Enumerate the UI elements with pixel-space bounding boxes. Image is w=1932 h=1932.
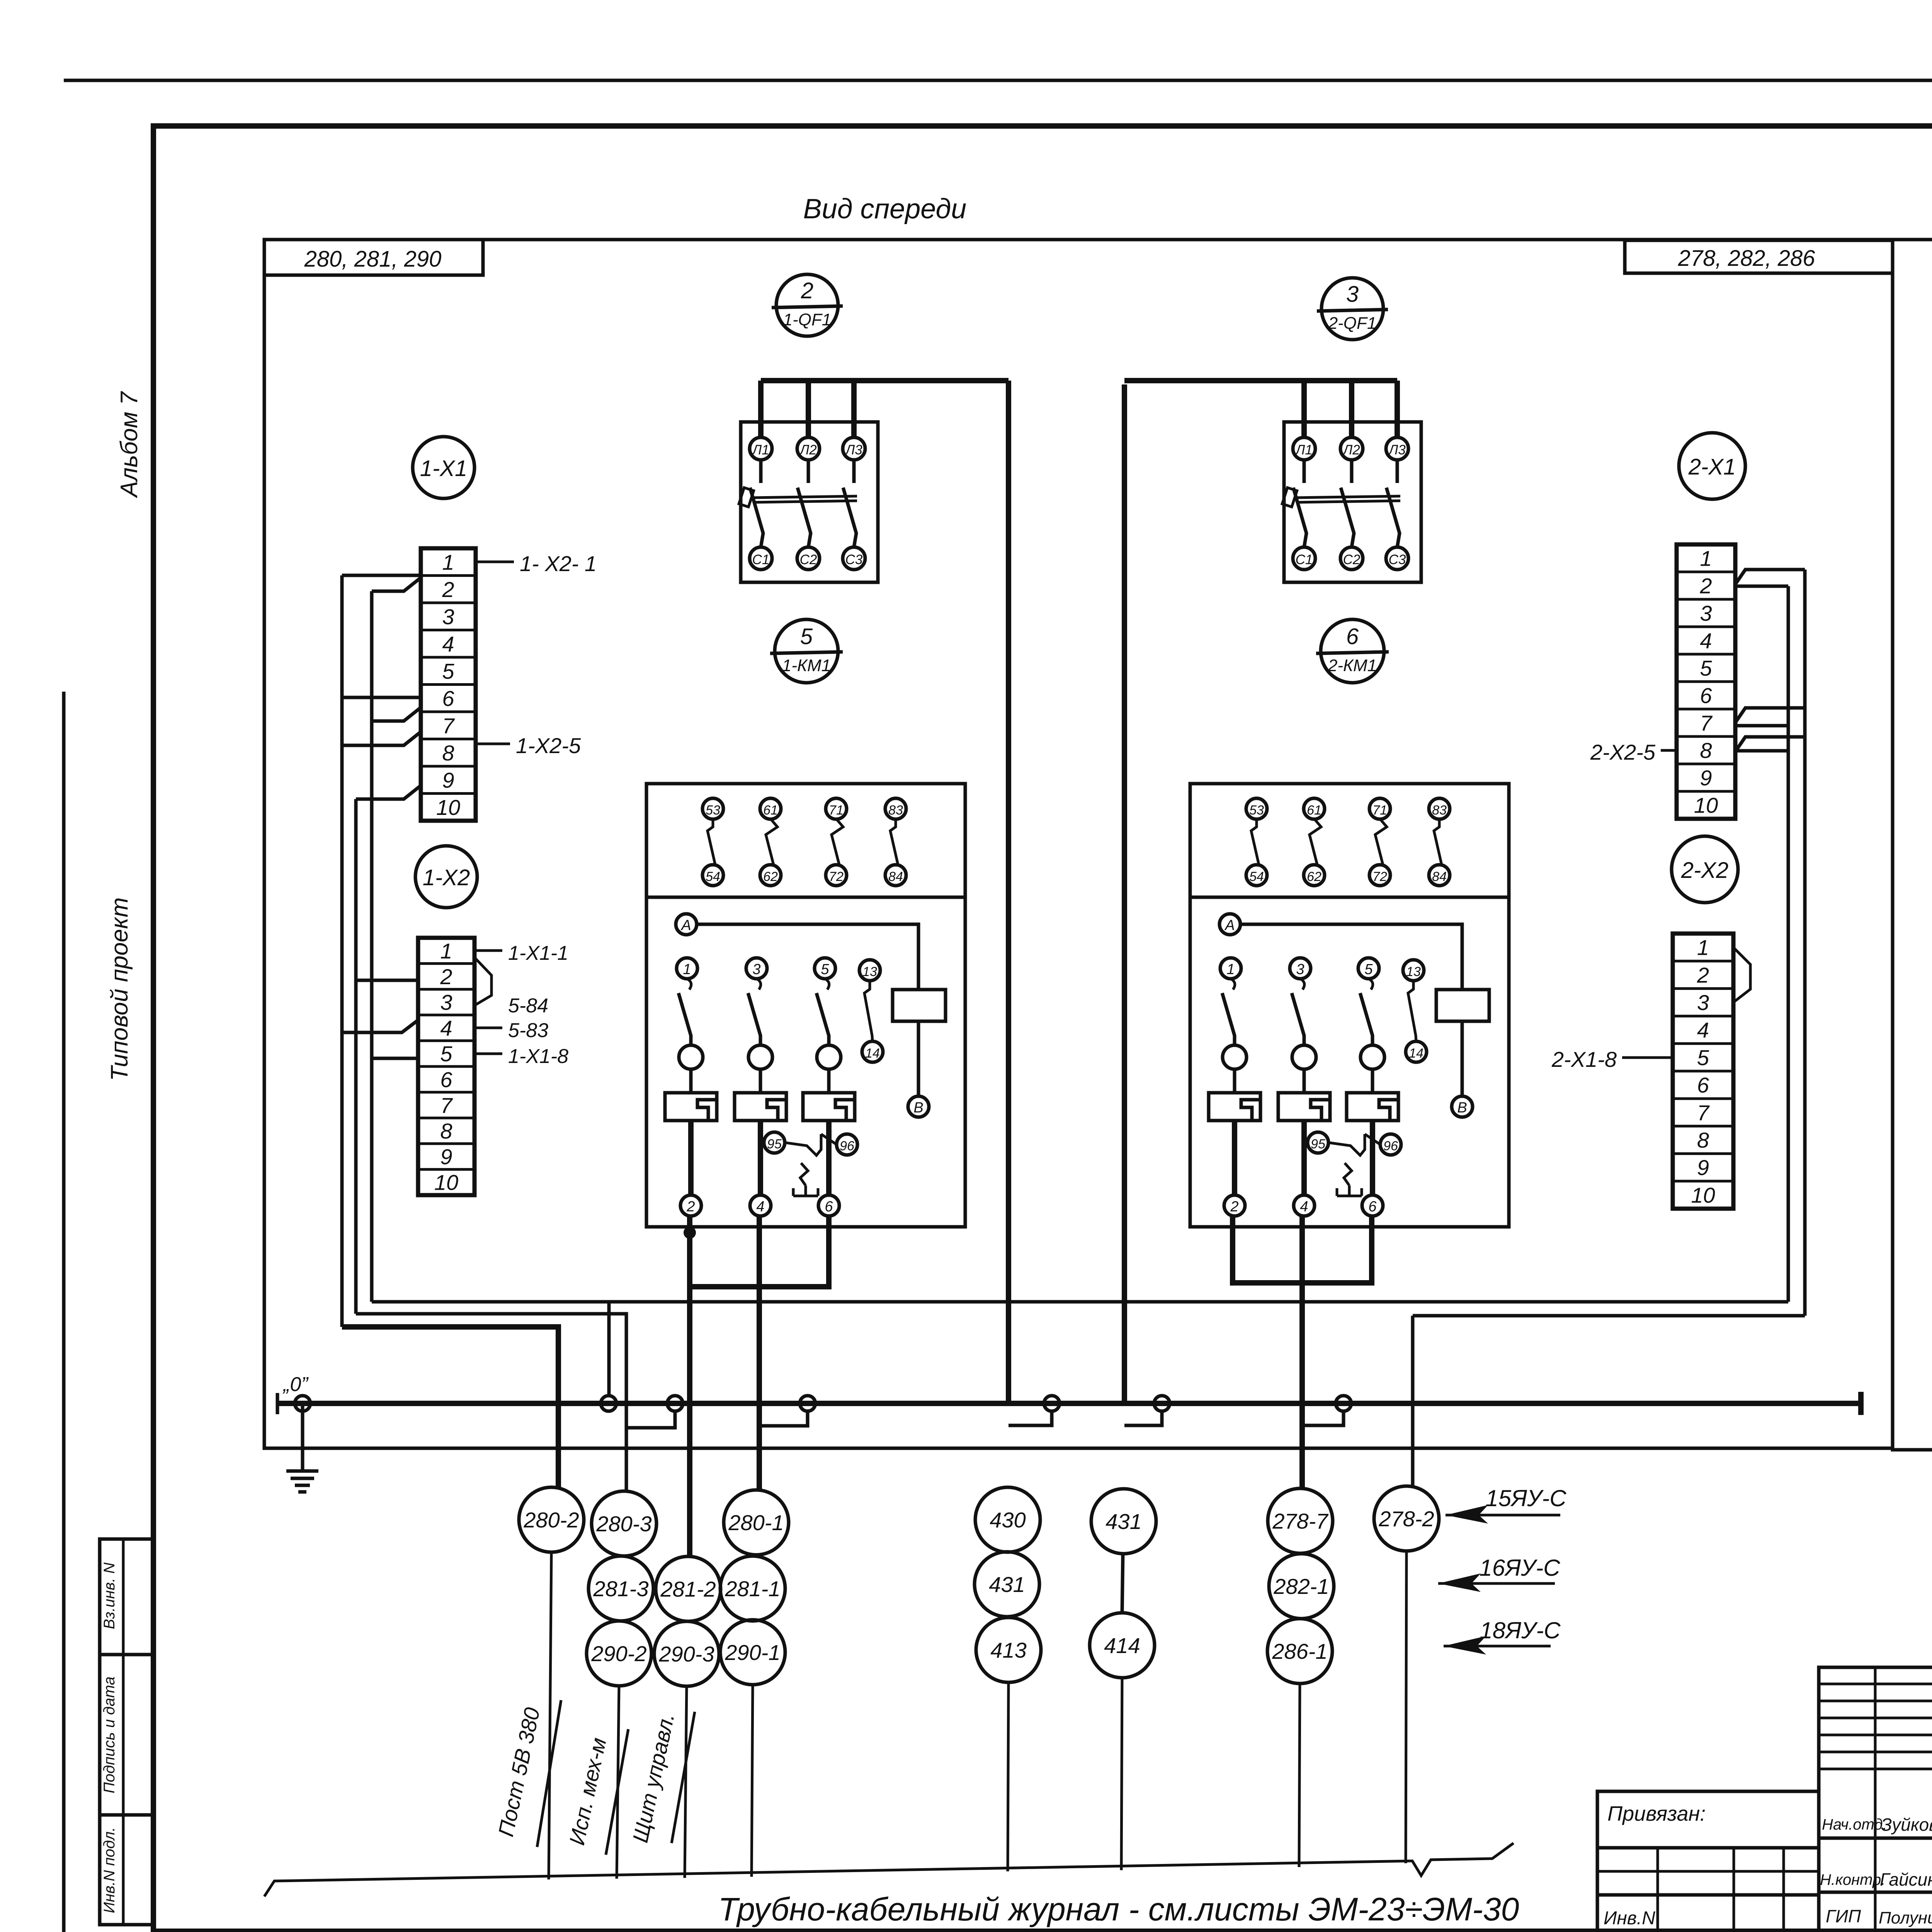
svg-text:3: 3	[1700, 601, 1712, 626]
svg-text:9: 9	[1700, 766, 1712, 790]
bus stub to 278-7 wire	[1302, 1411, 1344, 1425]
coil to node B	[1461, 1021, 1464, 1097]
svg-text:3: 3	[442, 604, 454, 629]
bottom terminal 2	[680, 1195, 701, 1216]
svg-text:53: 53	[1249, 803, 1264, 818]
svg-text:4: 4	[1300, 1199, 1308, 1215]
svg-text:С2: С2	[800, 552, 817, 567]
svg-text:Инв.N: Инв.N	[1604, 1908, 1655, 1929]
svg-text:1: 1	[442, 550, 454, 574]
release symbol	[800, 1163, 808, 1185]
svg-text:95: 95	[767, 1137, 782, 1151]
svg-text:5: 5	[440, 1042, 452, 1066]
svg-text:95: 95	[1311, 1137, 1325, 1151]
cable circle 281-1	[720, 1556, 785, 1621]
label 1-X1-8	[474, 1053, 502, 1055]
left wiring bundle vertical x=885	[340, 575, 344, 1327]
svg-text:278, 282, 286: 278, 282, 286	[1678, 246, 1816, 271]
left wiring bundle vertical x=921	[354, 799, 358, 1314]
main pole 3	[746, 958, 767, 979]
stub 2-X1 row7 b	[1735, 724, 1788, 728]
svg-text:5: 5	[442, 659, 454, 683]
svg-text:54: 54	[1249, 869, 1264, 884]
svg-text:6: 6	[1346, 624, 1359, 649]
svg-text:Привязан:: Привязан:	[1607, 1802, 1706, 1825]
svg-text:282-1: 282-1	[1273, 1574, 1329, 1599]
designator 6/2-КМ1	[1321, 619, 1384, 683]
svg-text:Подпись и дата: Подпись и дата	[101, 1677, 118, 1794]
cable circle 282-1	[1269, 1554, 1334, 1619]
bus junction x=783	[295, 1396, 310, 1411]
cable circle 280-1	[724, 1490, 789, 1555]
svg-text:54: 54	[706, 869, 720, 884]
terminal С3	[1386, 547, 1408, 570]
terminal Л3	[843, 437, 865, 460]
cable arrow 16ЯУ-С	[1438, 1582, 1555, 1585]
svg-text:4: 4	[442, 632, 454, 656]
bottom terminal 4	[750, 1195, 771, 1216]
svg-text:А: А	[680, 917, 691, 934]
svg-text:Нач.отд.: Нач.отд.	[1822, 1816, 1887, 1833]
svg-text:286-1: 286-1	[1272, 1639, 1327, 1663]
bottom terminal 6	[1362, 1195, 1383, 1216]
svg-text:Л1: Л1	[1295, 442, 1312, 457]
stub 1-X1 row7	[372, 707, 421, 721]
svg-text:3: 3	[752, 961, 760, 978]
designator 3/2-QF1	[1321, 278, 1383, 340]
cable circle 290-3	[654, 1621, 719, 1686]
node A	[1219, 914, 1240, 935]
terminal Л2	[797, 437, 820, 460]
contactor 1-KM1 box	[646, 784, 965, 1227]
coil wire A->coil	[1240, 924, 1462, 990]
trip bar	[1296, 496, 1400, 498]
main pole 5	[1358, 958, 1379, 979]
svg-text:10: 10	[1694, 793, 1718, 818]
svg-text:6: 6	[1697, 1073, 1709, 1097]
drop from routing wire to bus at x=1576	[607, 1302, 611, 1397]
stub 2-X1 row8 b	[1735, 749, 1788, 753]
overload heater 1-KM1 pole 5	[803, 1093, 855, 1121]
wire: 1-KM1 terminal 2 branch down to 281-2	[687, 1287, 692, 1557]
svg-text:290-2: 290-2	[591, 1641, 646, 1666]
terminal block designator 2-X1	[1679, 433, 1745, 499]
designator 2/1-QF1	[776, 274, 838, 336]
stub 1-X1 row2 b	[372, 578, 421, 591]
aux contact 13/14	[1403, 960, 1424, 981]
circuit breaker 1-QF1 box	[741, 422, 878, 582]
svg-text:4: 4	[1700, 629, 1712, 653]
svg-text:13: 13	[862, 964, 877, 979]
svg-text:2-X1: 2-X1	[1688, 454, 1736, 480]
svg-text:3: 3	[1697, 990, 1709, 1015]
svg-text:3: 3	[1346, 282, 1359, 307]
svg-text:10: 10	[436, 795, 460, 820]
svg-text:9: 9	[440, 1145, 452, 1169]
svg-text:2: 2	[1697, 963, 1709, 987]
coil to node B	[917, 1021, 920, 1097]
svg-text:2: 2	[1699, 574, 1712, 598]
main box (Вид спереди)	[264, 240, 1893, 1448]
svg-text:2-КМ1: 2-КМ1	[1328, 656, 1377, 675]
feeder bus	[1124, 378, 1397, 383]
latch rect	[739, 488, 753, 507]
bracket 2-X2 rows1-3	[1733, 947, 1750, 1002]
svg-text:1: 1	[440, 939, 452, 963]
stub 2-X1 row2 b	[1735, 585, 1788, 588]
svg-text:14: 14	[1409, 1046, 1423, 1061]
svg-text:7: 7	[1700, 711, 1713, 735]
svg-text:83: 83	[1432, 803, 1447, 818]
svg-text:2-Х2-5: 2-Х2-5	[1590, 740, 1656, 764]
cable drop wires to journal brace	[549, 1552, 551, 1879]
label box 278,282,286	[1625, 240, 1893, 273]
cable circle 290-1	[720, 1620, 785, 1685]
svg-text:8: 8	[1697, 1128, 1709, 1152]
svg-text:Гайсина: Гайсина	[1880, 1869, 1932, 1889]
svg-text:С1: С1	[1296, 552, 1313, 567]
aux contact 71/72	[1369, 798, 1390, 819]
stub 1-X2 row2	[356, 979, 418, 982]
ground symbol	[286, 1469, 318, 1473]
cable circle 278-7	[1268, 1488, 1333, 1553]
svg-text:9: 9	[442, 768, 454, 792]
svg-text:4: 4	[1697, 1018, 1709, 1042]
svg-text:18ЯУ-С: 18ЯУ-С	[1480, 1617, 1561, 1643]
overload heater 2-KM1 pole 5	[1347, 1093, 1398, 1121]
svg-text:9: 9	[1697, 1155, 1709, 1180]
wire: 2-KM1 terminal 2 down & U loop to 6	[1230, 1216, 1235, 1262]
svg-text:8: 8	[440, 1119, 452, 1143]
cable circle 286-1	[1267, 1619, 1332, 1684]
svg-text:83: 83	[888, 803, 903, 818]
terminal block designator 1-X1	[413, 437, 474, 498]
wire 431-414 link	[1122, 1554, 1123, 1613]
label 2-X1-8	[1622, 1056, 1673, 1059]
svg-text:6: 6	[442, 686, 454, 711]
cable arrow 18ЯУ-С	[1444, 1645, 1551, 1648]
node B	[908, 1096, 929, 1117]
svg-text:С3: С3	[1389, 552, 1406, 567]
svg-text:1: 1	[683, 961, 691, 978]
svg-text:280-1: 280-1	[728, 1510, 784, 1535]
terminal С2	[1340, 547, 1363, 570]
label box 280,281,290	[264, 240, 483, 275]
svg-text:5-83: 5-83	[508, 1019, 548, 1042]
journal brace line	[264, 1843, 1514, 1896]
svg-text:Альбом 7: Альбом 7	[116, 391, 143, 498]
svg-text:414: 414	[1104, 1633, 1140, 1658]
stub 1-X1 row10	[356, 786, 421, 799]
svg-text:7: 7	[440, 1093, 453, 1117]
svg-text:1: 1	[1700, 546, 1712, 571]
svg-text:278-7: 278-7	[1272, 1509, 1328, 1533]
cable circle 431	[975, 1552, 1039, 1617]
svg-text:1-Х2: 1-Х2	[423, 865, 470, 890]
coil wire A->coil	[697, 924, 918, 990]
thermal relay contact 95/96	[764, 1132, 785, 1153]
svg-text:16ЯУ-С: 16ЯУ-С	[1479, 1555, 1560, 1581]
aux contact 83/84	[885, 798, 906, 819]
svg-text:Н.контр.: Н.контр.	[1820, 1871, 1885, 1888]
cable circle 290-2	[587, 1621, 651, 1686]
terminal С1	[750, 547, 772, 570]
stub 1-X1 row2 a	[342, 574, 421, 577]
svg-text:В: В	[1457, 1100, 1467, 1116]
svg-text:1-Х2-5: 1-Х2-5	[516, 733, 581, 758]
terminal block 1-X1	[421, 548, 476, 821]
aux contact 71/72	[826, 798, 847, 819]
svg-text:2-QF1: 2-QF1	[1328, 314, 1377, 333]
main pole 1	[677, 958, 697, 979]
wire QF2 bus down to 431	[1122, 384, 1127, 1403]
stub 2-X1 row8 a	[1735, 737, 1805, 752]
main pole 5	[815, 958, 835, 979]
svg-text:281-2: 281-2	[660, 1577, 716, 1601]
node B	[1452, 1096, 1473, 1117]
svg-text:Типовой проект: Типовой проект	[106, 897, 133, 1081]
aux contact 83/84	[1429, 798, 1450, 819]
main pole 1	[1220, 958, 1241, 979]
wire 278-2 vertical	[1411, 1316, 1415, 1486]
cable circle 430	[975, 1487, 1040, 1552]
svg-text:13: 13	[1406, 964, 1421, 979]
svg-text:С1: С1	[752, 552, 770, 567]
svg-text:15ЯУ-С: 15ЯУ-С	[1485, 1485, 1566, 1511]
svg-text:Л3: Л3	[1388, 442, 1406, 457]
svg-text:Трубно-кабельный журнал - см.: Трубно-кабельный журнал - см.листы ЭМ-23…	[718, 1891, 1519, 1927]
svg-text:8: 8	[1700, 738, 1712, 763]
svg-text:Вид спереди: Вид спереди	[803, 194, 967, 224]
bus junction x=2722	[1044, 1396, 1060, 1411]
svg-text:278-2: 278-2	[1378, 1507, 1434, 1531]
pole circle	[1223, 1045, 1247, 1069]
aux contact 61/62	[760, 798, 781, 819]
svg-text:61: 61	[1307, 803, 1321, 818]
svg-text:72: 72	[829, 869, 844, 884]
svg-text:В: В	[913, 1100, 923, 1116]
svg-text:С2: С2	[1343, 552, 1361, 567]
terminal block 1-X2	[418, 938, 474, 1195]
coil	[1436, 990, 1489, 1021]
main pole 3	[1290, 958, 1311, 979]
overload heater 2-KM1 pole 3	[1278, 1093, 1330, 1121]
overload heater 1-KM1 pole 3	[735, 1093, 786, 1121]
right wiring vertical A x=4628	[1787, 586, 1790, 1302]
designator 5/1-КМ1	[775, 619, 838, 683]
svg-text:Вз.инв. N: Вз.инв. N	[101, 1563, 118, 1629]
cable circle 281-2	[656, 1556, 721, 1621]
left edge mini table	[100, 1539, 153, 1925]
svg-text:53: 53	[706, 803, 720, 818]
sheet top edge line	[64, 79, 1932, 82]
svg-text:С3: С3	[845, 552, 863, 567]
terminal block designator 2-X2	[1672, 836, 1738, 903]
svg-text:5: 5	[1697, 1045, 1709, 1070]
overload heater 2-KM1 pole 1	[1209, 1093, 1260, 1121]
svg-text:Л2: Л2	[1342, 442, 1360, 457]
svg-text:290-3: 290-3	[658, 1642, 714, 1666]
svg-text:5: 5	[800, 624, 813, 649]
cable circle 280-3	[592, 1491, 656, 1556]
circuit breaker 2-QF1 box	[1284, 422, 1421, 582]
bus stub to 431 wire	[1124, 1411, 1162, 1425]
bottom terminal 2	[1224, 1195, 1245, 1216]
svg-text:281-1: 281-1	[724, 1577, 780, 1601]
svg-text:1- Х2- 1: 1- Х2- 1	[520, 551, 597, 576]
wire: 2-KM1 terminal 4 down to 278-7	[1299, 1216, 1305, 1490]
svg-text:72: 72	[1372, 869, 1387, 884]
svg-text:1-X1: 1-X1	[420, 456, 468, 481]
label 5-83	[474, 1027, 502, 1029]
svg-text:5: 5	[1364, 961, 1373, 978]
svg-text:3: 3	[440, 990, 452, 1015]
title block	[1819, 1667, 1932, 1931]
svg-text:14: 14	[865, 1046, 880, 1061]
stub 1-X2 row5	[372, 1057, 418, 1060]
bottom terminal 6	[818, 1195, 839, 1216]
bus junction x=2090	[800, 1396, 815, 1411]
door box	[1893, 240, 1932, 1450]
pole circle	[817, 1045, 841, 1069]
svg-text:2: 2	[801, 278, 813, 303]
bus junction x=1575	[601, 1396, 616, 1411]
cable circle 431	[1091, 1489, 1156, 1554]
stub 2-X1 row7 a	[1735, 708, 1805, 723]
svg-text:71: 71	[829, 803, 844, 818]
terminal С1	[1293, 547, 1315, 570]
cable arrow 15ЯУ-С	[1446, 1514, 1560, 1517]
svg-text:280-3: 280-3	[596, 1512, 651, 1536]
svg-text:5: 5	[1700, 656, 1712, 680]
svg-text:96: 96	[1383, 1139, 1398, 1153]
node A	[676, 914, 697, 935]
feeder bus	[761, 378, 1009, 383]
svg-text:1: 1	[1226, 961, 1235, 978]
left wiring bundle vertical x=962	[370, 591, 374, 1302]
wire QF1 bus down to 430	[1006, 381, 1011, 1403]
label 2-X2-5	[1661, 749, 1677, 752]
latch rect	[1282, 488, 1297, 507]
terminal С3	[843, 547, 865, 570]
svg-text:2: 2	[686, 1199, 695, 1215]
privyazan box	[1597, 1791, 1819, 1931]
release symbol	[1344, 1163, 1352, 1185]
svg-text:2-Х2: 2-Х2	[1681, 858, 1729, 883]
cable circle 413	[976, 1617, 1041, 1682]
svg-text:Л3: Л3	[845, 442, 862, 457]
label 1-X1-1	[474, 949, 502, 952]
svg-text:6: 6	[825, 1199, 833, 1215]
svg-text:10: 10	[1691, 1183, 1715, 1207]
svg-text:413: 413	[990, 1638, 1026, 1662]
terminal Л2	[1340, 437, 1363, 460]
bus stub to 280-3 wire	[626, 1411, 675, 1428]
svg-text:8: 8	[442, 741, 454, 765]
svg-text:61: 61	[763, 803, 778, 818]
svg-text:1-Х1-8: 1-Х1-8	[508, 1045, 568, 1068]
svg-text:7: 7	[442, 713, 455, 738]
pole circle	[1292, 1045, 1316, 1069]
ground wire	[301, 1403, 304, 1471]
cable circle 281-3	[588, 1556, 653, 1621]
svg-text:62: 62	[1307, 869, 1321, 884]
long routing wire y=3369	[372, 1300, 1788, 1304]
terminal block 2-X2	[1673, 934, 1733, 1209]
svg-text:Инв.N подл.: Инв.N подл.	[101, 1827, 118, 1913]
bus junction x=3477	[1336, 1396, 1351, 1411]
svg-text:96: 96	[840, 1139, 854, 1153]
svg-text:2: 2	[442, 577, 454, 602]
stub 1-X1 row8	[342, 732, 421, 745]
routing wire y=3405 from 278-2 to vertical B	[1413, 1314, 1805, 1318]
svg-text:„0”: „0”	[282, 1373, 309, 1396]
svg-text:6: 6	[1700, 684, 1712, 708]
aux contact 61/62	[1304, 798, 1325, 819]
right wiring vertical B x=4671	[1803, 570, 1807, 1316]
svg-text:5-84: 5-84	[508, 995, 548, 1017]
svg-text:4: 4	[756, 1199, 764, 1215]
bracket rows1-3 to 5-84	[474, 957, 492, 1005]
svg-text:84: 84	[1432, 869, 1447, 884]
svg-text:А: А	[1224, 917, 1235, 934]
svg-text:281-3: 281-3	[593, 1577, 648, 1601]
zero bus	[277, 1401, 1861, 1406]
svg-text:84: 84	[888, 869, 903, 884]
pole circle	[748, 1045, 772, 1069]
cable circle 414	[1090, 1613, 1155, 1678]
wire: 1-KM1 terminal 4 down to 280-1	[757, 1216, 762, 1491]
svg-text:Полунцев: Полунцев	[1879, 1908, 1932, 1927]
svg-text:6: 6	[440, 1067, 452, 1092]
wire: 1-KM1 terminal 2 down & U loop to 6	[687, 1216, 692, 1267]
contactor 2-KM1 box	[1190, 784, 1509, 1227]
svg-text:10: 10	[434, 1170, 458, 1195]
svg-text:1-КМ1: 1-КМ1	[782, 656, 831, 675]
terminal Л3	[1386, 437, 1408, 460]
label 1-X2-5	[476, 743, 510, 745]
sheet left edge	[62, 692, 66, 1932]
left routing y=3400 to 280-3	[356, 1314, 626, 1492]
svg-text:1-Х1-1: 1-Х1-1	[508, 942, 568, 964]
overload heater 1-KM1 pole 1	[665, 1093, 717, 1121]
terminal Л1	[750, 437, 772, 460]
trip bar	[753, 496, 857, 498]
aux contact 13/14	[859, 960, 880, 981]
pole circle	[679, 1045, 703, 1069]
cable circle 280-2	[519, 1487, 584, 1552]
svg-text:431: 431	[989, 1572, 1025, 1597]
svg-text:71: 71	[1372, 803, 1387, 818]
cable circle 278-2	[1374, 1486, 1439, 1551]
svg-text:290-1: 290-1	[724, 1640, 780, 1665]
svg-text:1-QF1: 1-QF1	[783, 310, 832, 329]
svg-text:431: 431	[1105, 1509, 1141, 1534]
svg-text:1: 1	[1697, 935, 1709, 960]
svg-text:Л1: Л1	[752, 442, 769, 457]
thermal relay contact 95/96	[1308, 1132, 1328, 1153]
aux contact 53/54	[1246, 798, 1267, 819]
bus stub to 430 wire	[1009, 1411, 1052, 1425]
svg-text:Зуйков: Зуйков	[1881, 1815, 1932, 1835]
stub 2-X1 row2 a	[1735, 570, 1805, 584]
bus stub to 280-1 wire	[759, 1411, 808, 1426]
svg-text:280, 281, 290: 280, 281, 290	[304, 247, 442, 272]
coil	[893, 990, 946, 1021]
bus junction x=3007	[1154, 1396, 1170, 1411]
bus junction x=1747	[667, 1396, 683, 1411]
svg-text:2: 2	[440, 964, 452, 989]
